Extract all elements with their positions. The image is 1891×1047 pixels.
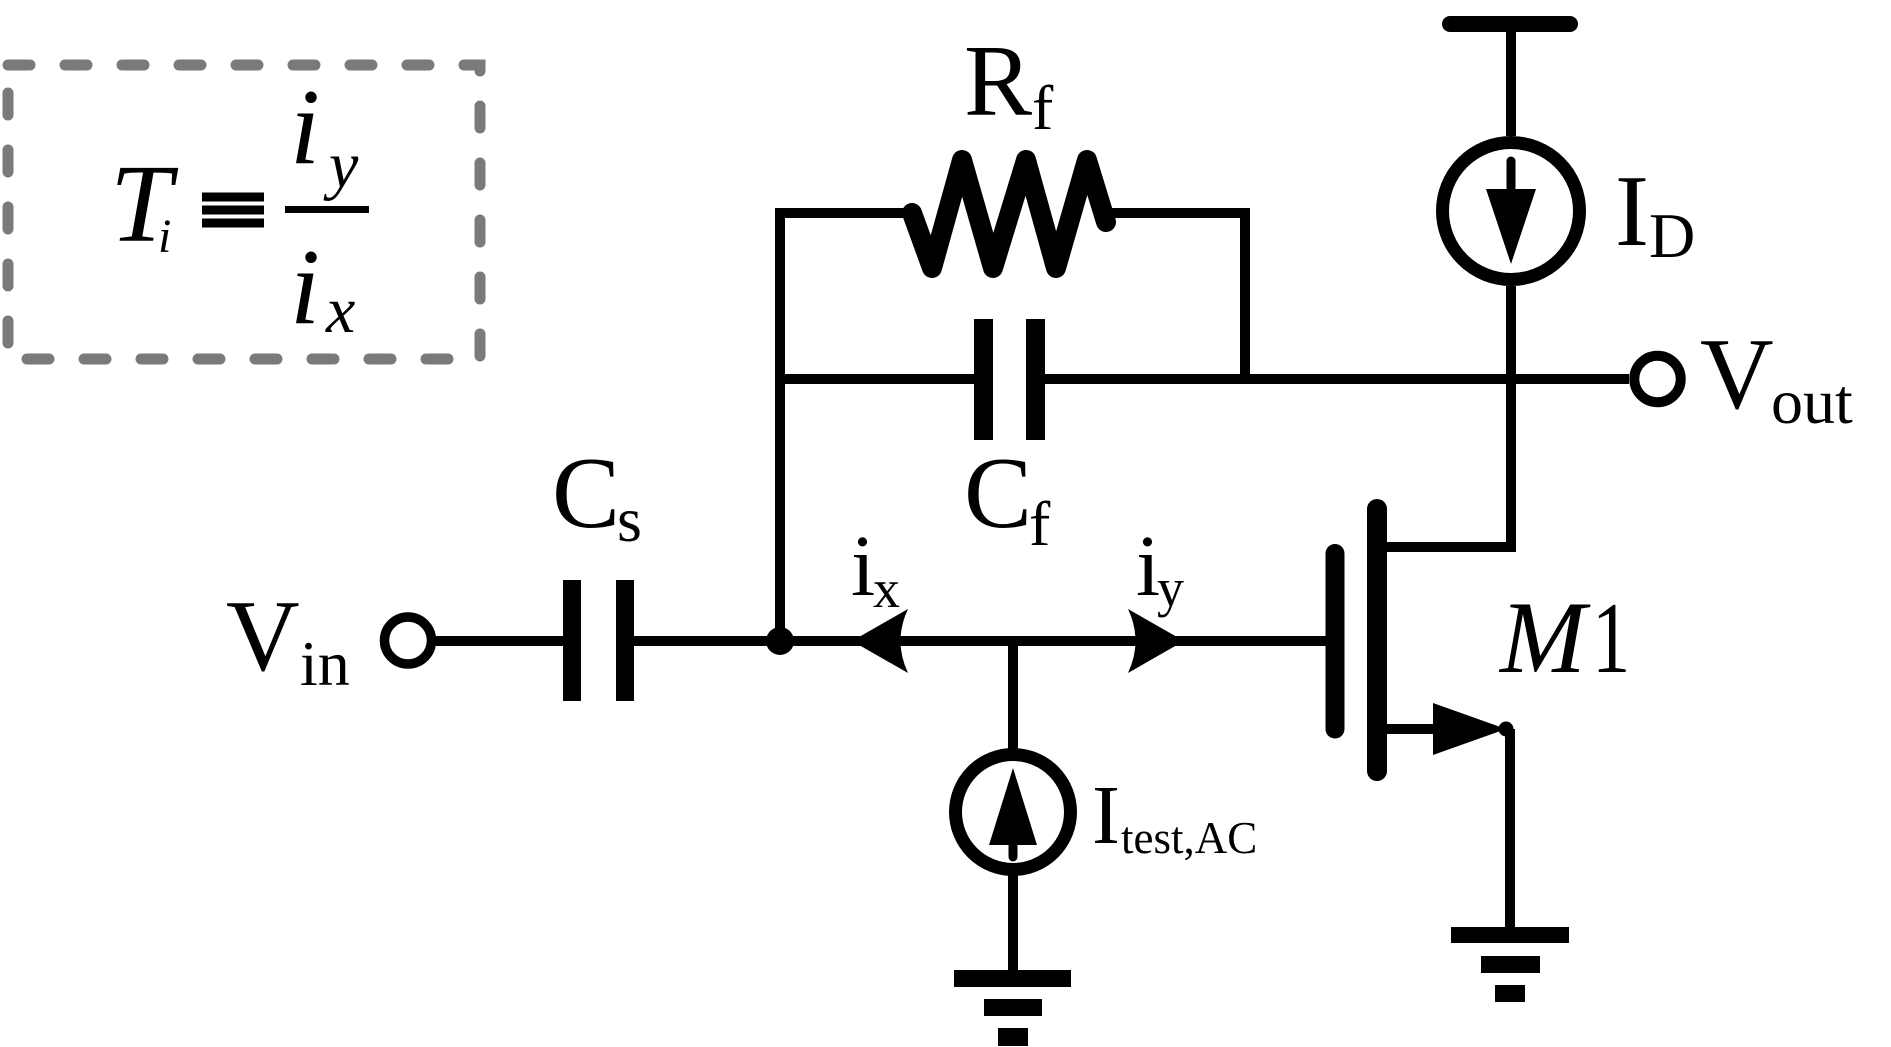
svg-text:y: y	[1157, 558, 1184, 618]
svg-text:i: i	[290, 68, 320, 187]
svg-text:V: V	[1700, 318, 1774, 431]
svg-text:i: i	[290, 228, 320, 347]
svg-text:x: x	[325, 274, 355, 347]
svg-text:out: out	[1771, 366, 1853, 437]
svg-text:in: in	[300, 628, 350, 699]
svg-text:V: V	[226, 580, 300, 693]
svg-text:i: i	[158, 210, 171, 263]
svg-text:C: C	[552, 437, 620, 550]
svg-text:M: M	[1498, 581, 1591, 695]
svg-text:I: I	[1615, 155, 1649, 268]
svg-text:C: C	[964, 437, 1032, 550]
svg-text:I: I	[1092, 769, 1120, 862]
svg-text:y: y	[323, 129, 359, 202]
svg-text:x: x	[873, 559, 900, 619]
svg-text:1: 1	[1592, 581, 1630, 694]
svg-text:s: s	[617, 484, 642, 555]
svg-text:i: i	[851, 517, 875, 614]
svg-text:R: R	[964, 25, 1032, 138]
svg-text:f: f	[1029, 488, 1051, 559]
svg-text:f: f	[1032, 72, 1054, 143]
svg-text:test,AC: test,AC	[1121, 813, 1257, 863]
svg-text:D: D	[1649, 200, 1695, 271]
